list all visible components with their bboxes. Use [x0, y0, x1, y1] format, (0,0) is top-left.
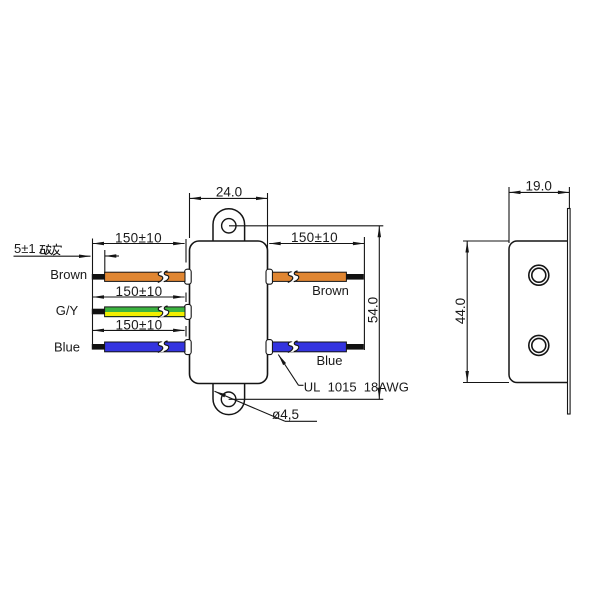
extension stub above left blue bushing — [185, 326, 187, 337]
wire left blue — [92, 341, 185, 352]
wire right brown — [272, 271, 363, 282]
top reference line from tab hole — [229, 225, 383, 227]
wire left G/Y — [92, 306, 185, 317]
wire bushing left brown — [185, 269, 192, 284]
svg-text:150±10: 150±10 — [115, 284, 162, 299]
wire bushing left blue — [185, 340, 192, 355]
dimension 19.0 — [509, 187, 569, 243]
dimension 44.0 — [463, 241, 509, 383]
side view body — [509, 241, 568, 383]
extension stub above left brown bushing — [185, 239, 187, 263]
side view flange (tab edge-on) — [568, 209, 571, 415]
wire left brown — [92, 271, 185, 282]
wire right blue — [272, 341, 363, 352]
wire bushing right blue — [266, 340, 273, 355]
svg-text:Brown: Brown — [50, 267, 87, 282]
dimension 54.0 — [378, 226, 380, 399]
svg-text:Blue: Blue — [54, 339, 80, 354]
leader ø4,5 — [215, 391, 286, 421]
wire bushing left G/Y — [185, 304, 192, 319]
dimension 150±10 left #3 — [93, 329, 185, 331]
dimension 150±10 left #1 — [93, 239, 185, 349]
svg-text:5±1: 5±1 — [14, 241, 36, 256]
bottom tab hole — [221, 392, 236, 407]
extension stub above left G/Y bushing — [185, 293, 187, 303]
dimension 150±10 left #2 — [93, 296, 185, 298]
svg-text:150±10: 150±10 — [115, 318, 162, 333]
dimension 24.0 — [190, 193, 268, 250]
bottom reference line from tab hole — [229, 398, 384, 400]
svg-text:Blue: Blue — [316, 353, 342, 368]
side view hole upper — [529, 265, 549, 285]
side view hole lower — [529, 335, 549, 355]
svg-text:G/Y: G/Y — [56, 303, 79, 318]
bottom mounting tab (front view) — [213, 382, 245, 415]
svg-text:19.0: 19.0 — [526, 178, 552, 193]
extension line at end of stripped tip — [104, 250, 106, 273]
CJK char 破 (hand-drawn strokes) — [40, 244, 52, 254]
svg-text:44.0: 44.0 — [453, 298, 468, 324]
dimension 150±10 right — [269, 237, 364, 350]
top mounting tab (front view) — [213, 209, 245, 242]
leader for 5±1 — [14, 255, 91, 257]
svg-text:54.0: 54.0 — [365, 297, 380, 323]
svg-text:24.0: 24.0 — [216, 184, 242, 199]
filter body (front view) — [190, 241, 268, 384]
svg-text:Brown: Brown — [312, 283, 349, 298]
svg-text:ø4,5: ø4,5 — [272, 407, 299, 422]
svg-text:UL 1015 18AWG: UL 1015 18AWG — [304, 379, 409, 394]
wire bushing right brown — [266, 269, 273, 284]
leader UL 1015 18AWG — [278, 355, 298, 386]
CJK char 皮 (hand-drawn strokes) — [52, 244, 62, 255]
svg-text:150±10: 150±10 — [115, 230, 162, 245]
top tab hole — [222, 219, 236, 233]
svg-text:150±10: 150±10 — [291, 230, 338, 245]
